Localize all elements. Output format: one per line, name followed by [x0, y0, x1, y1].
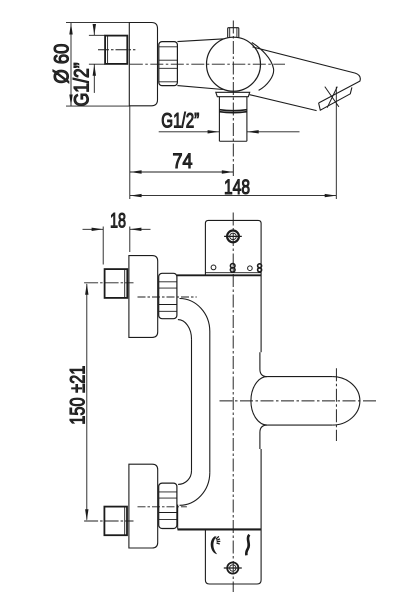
handle neck top	[260, 352, 267, 376]
bottom nut centerline / 150 extension	[84, 520, 133, 522]
panel vertical centerline	[232, 213, 234, 593]
body cone bottom edge	[177, 86, 223, 90]
shower pipe bottom edge	[219, 140, 247, 142]
extension line left datum	[129, 106, 131, 199]
svg-text:148: 148	[224, 176, 250, 199]
flange hex collar	[159, 42, 178, 86]
extension line spout tip	[335, 87, 337, 199]
body top bend inner arc	[180, 299, 210, 332]
dim 150±21 line	[86, 284, 88, 520]
panel shelf thin line top	[205, 272, 261, 274]
body bottom bend outer arc	[178, 471, 191, 485]
handle capsule right cap	[332, 377, 360, 426]
top hex union	[159, 273, 177, 318]
handle capsule bottom line	[267, 424, 332, 426]
panel left edge upper	[204, 240, 206, 275]
dim Ø60 line	[70, 23, 72, 106]
panel top edge	[205, 220, 261, 240]
svg-text:74: 74	[173, 150, 193, 173]
body bottom bend inner arc	[180, 473, 210, 506]
top nut inner line	[124, 269, 126, 297]
spout underside	[250, 95, 317, 111]
body cone top edge	[177, 39, 224, 42]
dim 148 line	[130, 195, 336, 197]
bottom nut inner line	[124, 507, 126, 535]
panel shelf thick line top	[177, 274, 261, 276]
panel left edge lower	[204, 530, 206, 580]
svg-text:G1/2”: G1/2”	[70, 62, 93, 106]
nut inner relief line	[107, 36, 109, 64]
body pipe right wall	[209, 332, 211, 473]
body top bend outer arc	[178, 320, 192, 340]
dim 18 extension lines	[102, 227, 104, 265]
vertical centerline of knob/pipe	[232, 21, 234, 177]
dim G1/2 (inlet) extension lines	[89, 34, 105, 36]
panel bottom edge	[205, 580, 261, 584]
bottom hex edge to shelf	[177, 505, 179, 530]
indicator hole right	[248, 266, 253, 271]
shower outlet collar	[216, 92, 250, 96]
spout cone silhouette arc	[252, 43, 274, 91]
bottom square nut	[104, 507, 127, 536]
svg-text:G1/2”: G1/2”	[161, 110, 199, 133]
panel right edge lower	[260, 449, 262, 580]
top square nut	[105, 269, 128, 298]
handle vertical centerline	[335, 368, 337, 441]
indicator pair right edge	[258, 264, 262, 268]
dim G1/2 (shower outlet) arrows	[159, 131, 219, 133]
top nut centerline / 150 extension	[84, 282, 133, 284]
bottom hex centerline	[138, 506, 187, 508]
hot symbol (spray)	[211, 536, 217, 554]
svg-text:18: 18	[110, 210, 126, 233]
body pipe left wall	[191, 339, 193, 471]
dim G1/2 (inlet) arrows	[93, 24, 95, 35]
top escutcheon	[129, 256, 158, 338]
handle left bulge arc	[251, 377, 267, 426]
dim 74 line	[130, 171, 233, 173]
handle horizontal centerline	[220, 400, 378, 402]
logo screw	[227, 562, 238, 573]
wall flange (side view)	[129, 23, 157, 106]
shower pipe walls	[218, 97, 220, 142]
dim Ø60 extension lines	[66, 22, 129, 24]
inlet square nut G1/2 (top view side)	[105, 36, 127, 64]
knob top button	[228, 28, 239, 38]
aerator band	[319, 87, 352, 110]
svg-text:150 ±21: 150 ±21	[66, 366, 89, 425]
panel top screw	[227, 231, 239, 243]
panel right edge upper	[260, 240, 262, 352]
handle neck bottom	[260, 425, 267, 449]
indicator pair center	[230, 264, 235, 269]
control knob circle	[207, 37, 261, 91]
nut centerline	[98, 49, 135, 51]
bottom escutcheon	[129, 464, 158, 548]
cold symbol (wave)	[246, 535, 249, 556]
horizontal centerline of body	[130, 63, 285, 65]
top hex centerline	[138, 296, 197, 298]
dim 18 arrows	[83, 228, 104, 230]
handle capsule top line	[267, 376, 332, 378]
bottom hex union	[159, 483, 177, 528]
shower pipe ring groove	[219, 110, 247, 111]
panel shelf thick line bottom	[178, 528, 262, 530]
indicator hole left	[211, 265, 216, 270]
spout top edge	[253, 47, 361, 103]
aerator hatch X	[325, 87, 339, 107]
